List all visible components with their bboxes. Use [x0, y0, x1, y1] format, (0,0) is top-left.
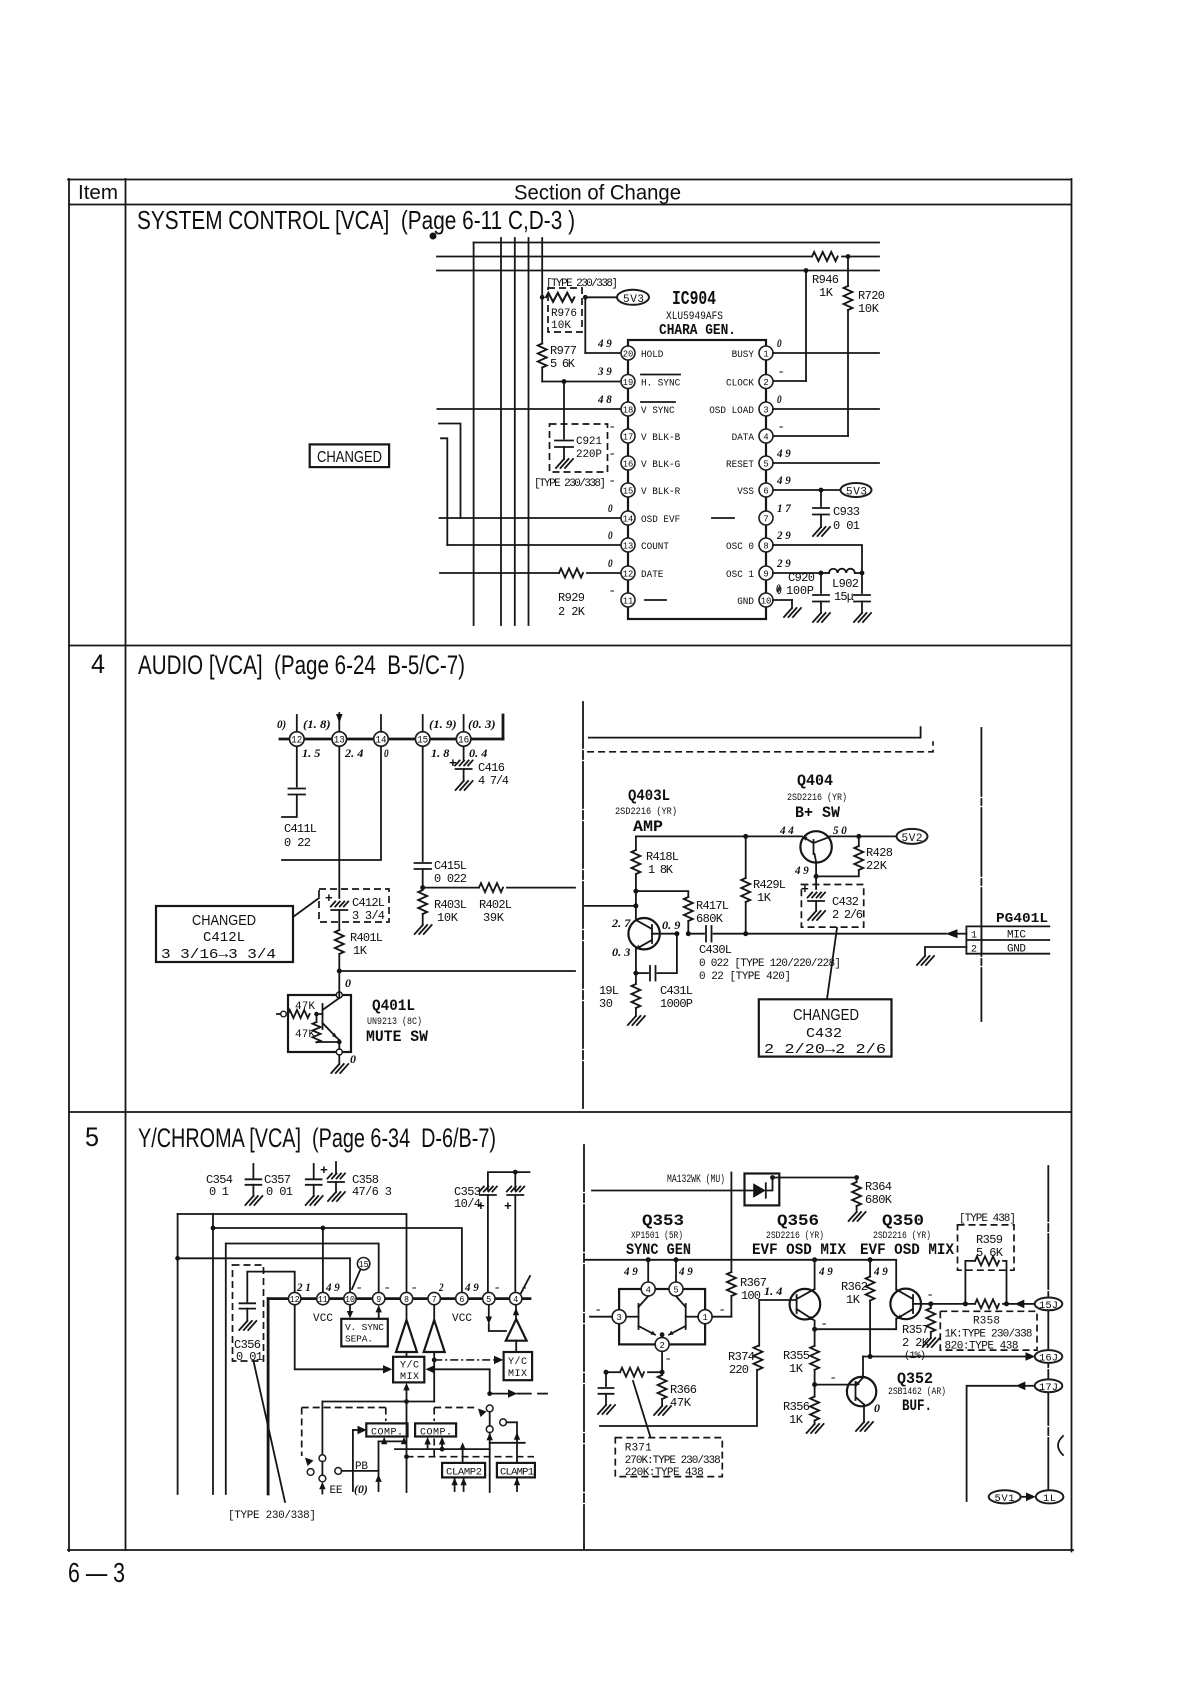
ground C921	[556, 459, 573, 468]
svg-text:C412L: C412L	[203, 930, 245, 946]
svg-text:0: 0	[777, 392, 782, 406]
svg-text:10K: 10K	[858, 302, 880, 316]
resistor R371	[604, 1370, 609, 1375]
wire 17J line	[967, 1386, 1016, 1501]
svg-text:1K: 1K	[353, 944, 368, 958]
svg-text:C430L: C430L	[699, 943, 732, 957]
svg-text:1. 8: 1. 8	[431, 746, 449, 760]
ground R357	[923, 1338, 940, 1347]
label box CLAMP1	[497, 1463, 535, 1478]
wire stub above pin	[422, 715, 424, 732]
svg-text:5V2: 5V2	[902, 833, 923, 845]
svg-text:VCC: VCC	[313, 1313, 333, 1325]
wire vertical feed 3	[514, 238, 516, 625]
svg-text:0. 4: 0. 4	[469, 746, 487, 760]
wire left stub	[585, 905, 636, 907]
svg-text:16: 16	[458, 736, 469, 747]
svg-text:R364: R364	[865, 1180, 892, 1194]
svg-text:(0. 3): (0. 3)	[468, 717, 496, 731]
svg-text:Section of Change: Section of Change	[514, 182, 681, 205]
wire dash-dot bus	[980, 728, 982, 1021]
wire pin12 to Y/C MIX	[295, 1305, 383, 1370]
curve mark	[1058, 1436, 1063, 1455]
wire pointer diagonal	[293, 898, 319, 917]
svg-text:0 01: 0 01	[266, 1185, 293, 1199]
svg-text:30: 30	[599, 997, 613, 1011]
transistor Q401L box	[288, 995, 351, 1052]
svg-text:CLOCK: CLOCK	[726, 377, 755, 389]
svg-text:5 6K: 5 6K	[976, 1246, 1004, 1260]
wire vertical V2	[212, 1214, 214, 1494]
wire pin15 drop	[422, 746, 424, 861]
svg-text:1. 5: 1. 5	[302, 746, 320, 760]
transistor Q356	[790, 1289, 821, 1320]
pin (15) circle	[357, 1258, 369, 1270]
svg-text:R362: R362	[841, 1280, 868, 1294]
wire MIC line	[714, 933, 947, 935]
resistor R374	[758, 1300, 760, 1346]
svg-text:Q353: Q353	[642, 1212, 684, 1230]
node junction emitter	[633, 971, 638, 976]
svg-text:4: 4	[91, 649, 105, 679]
dashed line lower	[407, 1456, 535, 1458]
svg-text:-: -	[610, 473, 615, 487]
svg-text:R357: R357	[902, 1323, 929, 1337]
transistor Q353 block	[619, 1289, 705, 1344]
svg-text:GND: GND	[737, 596, 754, 608]
svg-text:4 9: 4 9	[325, 1280, 340, 1294]
pin 11	[621, 593, 635, 607]
resistor R419L	[635, 973, 637, 984]
label box Y/C MIX left	[393, 1357, 424, 1383]
svg-text:15J: 15J	[1039, 1300, 1058, 1312]
svg-text:-: -	[385, 1280, 390, 1294]
svg-text:R403L: R403L	[434, 898, 467, 912]
svg-text:12: 12	[623, 568, 634, 579]
op-amp U IC904 body	[628, 340, 766, 619]
wire stub above pin	[463, 715, 465, 732]
wire pin3 OSD LOAD	[773, 408, 879, 410]
svg-text:3 3/4: 3 3/4	[352, 909, 385, 923]
svg-text:MIX: MIX	[400, 1372, 419, 1383]
svg-text:1K: 1K	[789, 1362, 804, 1376]
wire stub above pin	[296, 715, 298, 732]
svg-text:(1. 9): (1. 9)	[429, 717, 457, 731]
svg-text:3: 3	[763, 404, 769, 415]
svg-text:2 2/20→2 2/6: 2 2/20→2 2/6	[764, 1042, 886, 1058]
resistor R977	[538, 344, 547, 368]
capacitor C431L	[636, 972, 648, 974]
wire pin13 drop	[338, 746, 340, 898]
ground R356	[807, 1424, 824, 1433]
svg-text:8: 8	[404, 1295, 409, 1305]
svg-text:0 022 [TYPE 120/220/228]: 0 022 [TYPE 120/220/228]	[699, 958, 841, 970]
svg-text:220P: 220P	[576, 449, 602, 461]
ground cap	[598, 1405, 615, 1414]
svg-text:-: -	[610, 446, 615, 460]
svg-text:2 2K: 2 2K	[558, 605, 586, 619]
wire stub above pin	[380, 715, 382, 732]
svg-text:-: -	[779, 419, 784, 433]
wire PB riser	[378, 1441, 380, 1491]
wire pin5 RESET	[773, 462, 879, 464]
wire bracket solid	[589, 727, 921, 738]
svg-text:R358: R358	[973, 1316, 1000, 1328]
svg-text:BUF.: BUF.	[902, 1397, 932, 1415]
svg-text:-: -	[666, 1351, 671, 1365]
wire vertical feed 2	[500, 238, 502, 625]
svg-text:L902: L902	[832, 577, 859, 591]
pin 6	[456, 1292, 468, 1304]
svg-text:10K: 10K	[437, 911, 459, 925]
svg-text:11: 11	[623, 595, 634, 606]
table outer border top	[68, 179, 1071, 181]
overline V SYNC	[641, 401, 675, 403]
ground R364	[849, 1212, 866, 1221]
svg-text:-: -	[928, 1287, 933, 1301]
svg-text:0: 0	[608, 528, 613, 542]
wire pointer diagonal C356	[254, 1361, 286, 1502]
wire pin18 V SYNC feed	[437, 408, 621, 410]
svg-text:1K: 1K	[757, 891, 772, 905]
wire 16J line	[863, 1356, 1026, 1358]
svg-text:R401L: R401L	[350, 931, 383, 945]
svg-text:5V1: 5V1	[995, 1493, 1015, 1505]
pin 18	[621, 402, 635, 416]
pin 2	[759, 375, 773, 389]
svg-text:IC904: IC904	[672, 288, 716, 310]
svg-text:4 9: 4 9	[623, 1264, 638, 1278]
svg-text:C416: C416	[478, 761, 505, 775]
wire vertical feed 4	[528, 238, 530, 625]
svg-text:2 2K: 2 2K	[902, 1336, 930, 1350]
wire arrow out right	[490, 1393, 508, 1395]
svg-text:5: 5	[85, 1122, 99, 1152]
svg-text:C920: C920	[788, 571, 815, 585]
capacitor C415L	[415, 862, 432, 864]
node junction R946/R720	[846, 254, 851, 259]
arrow pin10 to box	[349, 1305, 351, 1312]
wire GND pin2	[925, 947, 966, 956]
wire mute line	[339, 970, 575, 972]
svg-text:R418L: R418L	[646, 850, 679, 864]
connector 16J	[1035, 1350, 1063, 1363]
arrow above CLAMP2	[462, 1449, 464, 1463]
svg-text:EE: EE	[330, 1485, 343, 1497]
arrow into Y/C MIX bottom	[406, 1390, 408, 1402]
wire vertical mid	[406, 1402, 408, 1493]
resistor R428	[858, 836, 860, 846]
svg-text:(1. 8): (1. 8)	[303, 717, 331, 731]
svg-text:5V3: 5V3	[846, 487, 867, 499]
svg-text:MUTE SW: MUTE SW	[366, 1028, 428, 1046]
pin 12	[290, 732, 305, 747]
power 5V3 oval top	[617, 290, 649, 305]
svg-text:5: 5	[763, 458, 769, 469]
amplifier below pin8	[406, 1305, 408, 1320]
pin 15	[621, 483, 635, 497]
capacitor tank right	[861, 573, 863, 593]
svg-text:4 8: 4 8	[597, 392, 612, 406]
svg-text:+: +	[320, 1163, 328, 1178]
resistor R402L	[479, 883, 503, 892]
capacitor C356 (dashed box)	[233, 1265, 264, 1361]
svg-text:0 022: 0 022	[434, 872, 467, 886]
arrow into pin4	[515, 1305, 517, 1319]
svg-text:1K:TYPE 230/338: 1K:TYPE 230/338	[945, 1329, 1033, 1341]
ground C432	[808, 911, 825, 920]
svg-text:AUDIO [VCA] (Page 6-24 B-5/C: AUDIO [VCA] (Page 6-24 B-5/C-7)	[138, 650, 465, 680]
pin 4 Q353	[641, 1282, 655, 1296]
capacitor C920	[820, 573, 822, 593]
svg-text:-: -	[831, 1370, 836, 1384]
svg-text:GND: GND	[1007, 944, 1026, 956]
svg-text:0: 0	[608, 556, 613, 570]
label box CHANGED C432	[759, 999, 892, 1056]
dashed control left	[302, 1407, 386, 1409]
wire pin2 to bus	[805, 271, 807, 382]
capacitor C358	[335, 1162, 337, 1173]
pin 14	[621, 511, 635, 525]
pin11 inner dash	[645, 599, 666, 601]
svg-text:B+ SW: B+ SW	[795, 804, 840, 822]
label box COMP2	[415, 1423, 456, 1436]
svg-text:3 9: 3 9	[597, 364, 612, 378]
svg-text:C432: C432	[806, 1026, 842, 1042]
svg-text:4 9: 4 9	[794, 863, 809, 877]
resistor R366	[661, 1372, 663, 1375]
capacitor C411L	[296, 746, 298, 786]
svg-text:SYNC GEN: SYNC GEN	[626, 1241, 691, 1259]
resistor R401L	[335, 930, 344, 954]
svg-text:2: 2	[763, 377, 769, 388]
wire pin1 stub to R367	[712, 1316, 731, 1318]
row divider 2	[69, 1111, 1071, 1113]
wire vertical V3	[225, 1244, 227, 1495]
svg-text:9: 9	[763, 568, 769, 579]
svg-text:2 9: 2 9	[776, 528, 791, 542]
svg-text:680K: 680K	[696, 912, 724, 926]
svg-text:19L: 19L	[599, 984, 619, 998]
svg-text:16J: 16J	[1039, 1353, 1058, 1365]
wire pin8 OSC0	[773, 545, 862, 573]
svg-text:0: 0	[384, 746, 389, 760]
resistor R417L	[636, 891, 688, 897]
svg-text:100: 100	[741, 1289, 761, 1303]
ground Q352	[856, 1422, 873, 1431]
svg-text:6 — 3: 6 — 3	[68, 1557, 125, 1588]
svg-text:PB: PB	[355, 1461, 368, 1473]
resistor R362	[869, 1260, 871, 1277]
svg-text:2 2/6: 2 2/6	[832, 908, 863, 922]
wire right feed to Y/C MIX	[426, 1365, 435, 1373]
pin 3	[759, 402, 773, 416]
svg-text:H. SYNC: H. SYNC	[641, 377, 680, 389]
svg-text:VSS: VSS	[737, 486, 754, 498]
arrow below pin5	[488, 1305, 490, 1317]
svg-text:0 22 [TYPE 420]: 0 22 [TYPE 420]	[699, 971, 791, 983]
resistor R367	[730, 1173, 732, 1273]
svg-text:15: 15	[623, 485, 634, 496]
svg-text:BUSY: BUSY	[732, 349, 755, 361]
resistor R355	[814, 1329, 816, 1346]
wire vertical feed 1	[473, 243, 475, 626]
arrow MIC	[946, 929, 958, 938]
svg-text:0: 0	[345, 976, 351, 990]
svg-text:22K: 22K	[866, 859, 888, 873]
wire mix bottom junction	[322, 1401, 434, 1403]
svg-text:5V3: 5V3	[623, 294, 644, 306]
wire feed L4	[178, 1258, 350, 1292]
wire R720 to pin4	[847, 310, 849, 436]
pin 8	[400, 1292, 412, 1304]
svg-text:V. SYNC: V. SYNC	[345, 1322, 384, 1333]
pin 3 Q353	[612, 1310, 626, 1324]
svg-text:14: 14	[376, 736, 387, 747]
wire pin10 GND	[773, 599, 792, 601]
svg-text:17J: 17J	[1039, 1382, 1058, 1394]
svg-text:V BLK-B: V BLK-B	[641, 432, 680, 444]
wire emitters join	[815, 1319, 897, 1329]
svg-text:R428: R428	[866, 846, 893, 860]
label box R371 (dashed)	[615, 1438, 722, 1477]
ground Q401L	[338, 1055, 340, 1064]
wire base Q356	[759, 1299, 796, 1301]
svg-text:2 1: 2 1	[296, 1280, 311, 1294]
transistor Q350	[890, 1289, 921, 1320]
table outer border right	[1071, 179, 1073, 1552]
power 5V3 oval right	[841, 483, 872, 497]
svg-text:Item: Item	[78, 182, 118, 204]
svg-text:HOLD: HOLD	[641, 349, 663, 361]
capacitor R371 side	[605, 1372, 607, 1386]
pin 8	[759, 538, 773, 552]
svg-text:1K: 1K	[819, 286, 834, 300]
wire pin9 OSC1	[773, 572, 821, 574]
svg-text:5 0: 5 0	[833, 823, 847, 837]
svg-text:OSC 0: OSC 0	[726, 541, 754, 553]
svg-text:1L: 1L	[1043, 1493, 1056, 1505]
svg-text:C431L: C431L	[660, 984, 693, 998]
pin 7	[759, 511, 773, 525]
svg-text:270K:TYPE 230/338: 270K:TYPE 230/338	[625, 1455, 721, 1467]
svg-text:CLAMP1: CLAMP1	[500, 1467, 534, 1479]
ground tank right	[854, 613, 871, 622]
transistor Q403L	[628, 918, 659, 949]
label box V.SYNC SEPA	[341, 1319, 388, 1347]
pin 10	[759, 593, 773, 607]
pin 14	[374, 732, 389, 747]
transistor Q353 internals	[626, 1316, 638, 1318]
pin 12	[289, 1292, 301, 1304]
pin 13	[332, 732, 347, 747]
resistor R357	[930, 1304, 932, 1308]
svg-text:5: 5	[486, 1295, 491, 1305]
svg-text:PG401L: PG401L	[996, 911, 1048, 927]
diode MA132WK	[745, 1174, 780, 1206]
svg-text:6: 6	[459, 1295, 464, 1305]
pin 1	[759, 346, 773, 360]
svg-text:R977: R977	[550, 344, 577, 358]
arrow 5V1 to 1L	[1021, 1496, 1027, 1498]
svg-text:V BLK-R: V BLK-R	[641, 486, 681, 498]
svg-text:3 3/16→3 3/4: 3 3/16→3 3/4	[161, 947, 276, 963]
pin 9	[759, 566, 773, 580]
svg-text:Y/C: Y/C	[400, 1360, 419, 1372]
svg-text:11: 11	[318, 1295, 328, 1305]
transistor Q401L internal	[322, 1004, 324, 1029]
wire main rail	[585, 1260, 896, 1290]
pin 5 Q353	[669, 1282, 683, 1296]
svg-text:CHARA GEN.: CHARA GEN.	[659, 322, 736, 339]
svg-text:Y/CHROMA [VCA] (Page 6-34 D-: Y/CHROMA [VCA] (Page 6-34 D-6/B-7)	[138, 1123, 496, 1153]
amplifier below pin7	[433, 1305, 435, 1320]
svg-text:9: 9	[376, 1295, 381, 1305]
node junction C921 tap	[562, 379, 567, 384]
svg-text:C412L: C412L	[352, 896, 385, 910]
resistor R358	[975, 1299, 999, 1308]
pin 5	[483, 1292, 495, 1304]
svg-text:V BLK-G: V BLK-G	[641, 459, 680, 471]
label box Y/C MIX right	[504, 1352, 532, 1380]
pin 4	[759, 429, 773, 443]
svg-text:CHANGED: CHANGED	[317, 449, 382, 466]
svg-text:2: 2	[971, 945, 977, 956]
wire IC bus	[268, 1297, 530, 1300]
svg-text:39K: 39K	[483, 911, 505, 925]
inductor L902	[821, 572, 829, 574]
switch right second contact	[500, 1419, 507, 1426]
svg-text:2SD2216 (YR): 2SD2216 (YR)	[615, 806, 677, 818]
svg-text:10K: 10K	[551, 320, 571, 332]
svg-text:0): 0)	[277, 717, 286, 731]
wire comp feed A	[379, 1440, 405, 1442]
svg-text:0: 0	[874, 1401, 880, 1415]
node junction clock line	[804, 268, 809, 273]
svg-text:+: +	[801, 882, 809, 897]
svg-text:6: 6	[763, 485, 769, 496]
pin 20	[621, 346, 635, 360]
svg-text:1 7: 1 7	[777, 501, 792, 515]
svg-text:1: 1	[763, 348, 769, 359]
svg-text:17: 17	[623, 431, 634, 442]
svg-text:1 8K: 1 8K	[648, 863, 674, 877]
transistor Q404	[800, 831, 831, 862]
wire to R364	[773, 1177, 857, 1179]
svg-text:UN9213 (8C): UN9213 (8C)	[367, 1016, 422, 1028]
svg-text:13: 13	[334, 736, 345, 747]
scan mark	[430, 233, 437, 240]
capacitor C430L	[688, 933, 704, 935]
amplifier below pin4	[506, 1319, 527, 1341]
svg-text:R976: R976	[551, 308, 577, 320]
resistor R359 bypass	[965, 1261, 975, 1304]
svg-text:0 22: 0 22	[284, 836, 311, 850]
svg-text:4 9: 4 9	[818, 1264, 833, 1278]
svg-text:47K: 47K	[670, 1396, 692, 1410]
svg-text:Q404: Q404	[797, 772, 833, 790]
ground R403L	[415, 925, 432, 934]
svg-text:19: 19	[623, 377, 634, 388]
svg-text:2: 2	[438, 1280, 443, 1294]
pin 12	[621, 566, 635, 580]
svg-text:1: 1	[971, 931, 977, 942]
connector 15J	[1035, 1298, 1063, 1311]
svg-text:V SYNC: V SYNC	[641, 405, 675, 417]
svg-text:R929: R929	[558, 591, 585, 605]
svg-text:-: -	[779, 364, 784, 378]
ground C920	[813, 613, 830, 622]
